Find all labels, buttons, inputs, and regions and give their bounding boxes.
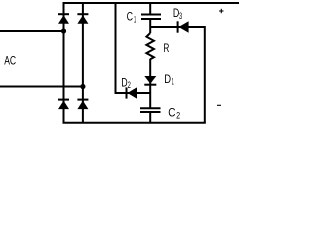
svg-text:R: R <box>163 41 169 55</box>
svg-text:1: 1 <box>134 14 136 24</box>
svg-text:3: 3 <box>179 11 182 21</box>
svg-text:D: D <box>164 74 171 86</box>
svg-text:C: C <box>168 108 175 120</box>
svg-text:1: 1 <box>172 77 174 87</box>
svg-text:2: 2 <box>176 111 180 121</box>
svg-text:C: C <box>127 11 133 23</box>
svg-text:AC: AC <box>4 55 16 67</box>
svg-text:2: 2 <box>128 80 131 90</box>
